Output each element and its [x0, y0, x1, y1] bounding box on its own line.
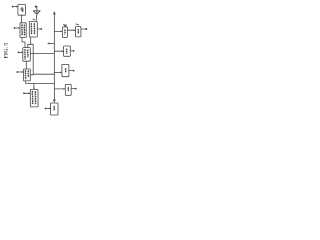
svg-text:FIG. 5: FIG. 5	[3, 43, 9, 59]
